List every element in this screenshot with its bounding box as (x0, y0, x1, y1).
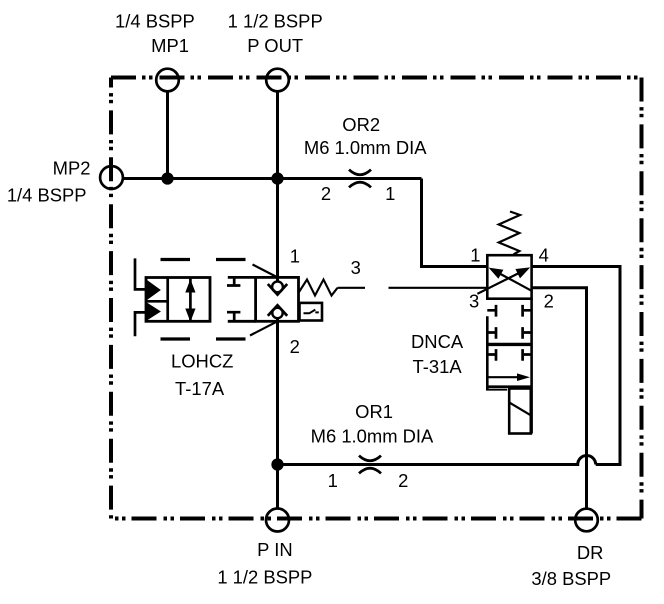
valve LOHCZ T-17A : pilot section dashed enclosure (161, 260, 246, 340)
LOHCZ pilot box (146, 278, 210, 322)
DNCA X line 2-to-1 (492, 269, 532, 290)
LOHCZ poppet lower ball (272, 308, 282, 318)
LOHCZ pilot box divider (166, 278, 169, 322)
svg-text:1: 1 (385, 183, 395, 204)
svg-text:1/4 BSPP: 1/4 BSPP (7, 185, 87, 206)
valve DNCA T-31A : spring (499, 212, 520, 255)
wire pilot to DNCA port3 (389, 287, 488, 289)
wire P OUT riser (276, 91, 279, 179)
LOHCZ diagonal pilot line upper (253, 265, 278, 278)
wire DNCA port4 right and down (532, 267, 620, 465)
svg-text:T-17A: T-17A (175, 378, 225, 399)
DNCA box3 bottom line (487, 385, 532, 388)
manifold boundary (dash-dot-dot border) (111, 76, 642, 80)
LOHCZ diagonal pilot line lower (250, 321, 278, 335)
DNCA box2/box3 separator (heavy) (486, 343, 532, 346)
svg-text:2: 2 (321, 183, 331, 204)
svg-text:2: 2 (398, 470, 408, 491)
svg-text:2: 2 (544, 291, 554, 312)
LOHCZ orifice box squiggle (304, 310, 319, 314)
svg-text:DNCA: DNCA (411, 331, 464, 352)
LOHCZ main cartridge box (256, 277, 299, 321)
svg-text:M6 1.0mm DIA: M6 1.0mm DIA (304, 137, 427, 158)
svg-text:2: 2 (290, 336, 300, 357)
LOHCZ pilot T upper (227, 278, 240, 286)
LOHCZ double arrow head up (186, 281, 195, 293)
LOHCZ spring (299, 280, 338, 296)
wire LOHCZ port3 pilot segment (338, 287, 366, 289)
svg-text:M6 1.0mm DIA: M6 1.0mm DIA (311, 425, 434, 446)
DNCA right edge full (530, 299, 533, 434)
orifice OR2 (349, 170, 371, 188)
LOHCZ pilot triangle lower (148, 304, 161, 320)
wire OR2 to DNCA port 1 (down) (422, 179, 488, 267)
LOHCZ pilot T lower (227, 312, 240, 321)
svg-text:T-31A: T-31A (413, 356, 463, 377)
LOHCZ orifice box (300, 303, 323, 321)
LOHCZ double arrow shaft (189, 278, 192, 322)
wire OR1 line with crossover hop (278, 456, 596, 465)
svg-text:OR2: OR2 (342, 114, 380, 135)
svg-text:1: 1 (470, 245, 480, 266)
LOHCZ pilot cells divider (146, 300, 168, 303)
svg-text:4: 4 (539, 245, 549, 266)
svg-text:P OUT: P OUT (247, 35, 303, 56)
wire LOHCZ port2 to P IN (276, 318, 279, 509)
orifice OR1 (359, 456, 381, 474)
DNCA blocked port T row3 right (523, 349, 532, 361)
LOHCZ pilot triangle upper (148, 281, 161, 299)
svg-text:OR1: OR1 (355, 401, 393, 422)
LOHCZ poppet upper seat (268, 284, 287, 295)
svg-text:1: 1 (290, 246, 300, 267)
DNCA box3 lower-left foot (486, 389, 507, 391)
svg-text:1 1/2 BSPP: 1 1/2 BSPP (228, 11, 323, 32)
LOHCZ pilot stub lower-left (135, 312, 146, 336)
svg-text:1/4 BSPP: 1/4 BSPP (115, 11, 195, 32)
DNCA position box 1 (487, 255, 531, 299)
port MP1 (156, 69, 179, 92)
LOHCZ bottom edge extension (228, 320, 256, 323)
LOHCZ poppet upper ball (272, 282, 283, 293)
LOHCZ poppet lower seat (268, 305, 287, 316)
DNCA left edge lower (486, 316, 489, 389)
port DR (575, 509, 598, 532)
DNCA solenoid box (509, 389, 531, 434)
port P OUT (266, 69, 289, 92)
DNCA blocked port T row2 left (487, 327, 496, 339)
wire MP1 riser (166, 91, 169, 179)
DNCA blocked port T row1 left (487, 305, 496, 317)
DNCA X arrowhead right (515, 267, 530, 278)
LOHCZ top edge extension (228, 276, 256, 279)
wire LOHCZ port1 riser (276, 179, 279, 282)
svg-text:LOHCZ: LOHCZ (171, 350, 233, 371)
LOHCZ double arrow head down (186, 309, 195, 321)
DNCA X line 3-to-4 (477, 270, 526, 294)
svg-text:3: 3 (469, 291, 479, 312)
svg-text:P IN: P IN (257, 539, 292, 560)
DNCA X arrowhead left (489, 268, 504, 279)
DNCA flow arrowhead box3 (517, 373, 530, 381)
junction node P IN/OR1 (273, 460, 283, 470)
DNCA blocked port T row3 left (487, 349, 496, 361)
wire MP2 main line (123, 177, 422, 180)
port P IN (266, 509, 289, 532)
junction node P OUT/MP2 (273, 174, 283, 184)
svg-text:MP2: MP2 (53, 158, 91, 179)
wire DNCA port2 to DR (532, 288, 587, 509)
DNCA solenoid diagonal (509, 402, 531, 415)
svg-text:MP1: MP1 (151, 35, 189, 56)
svg-text:1: 1 (328, 470, 338, 491)
junction node MP1/MP2 (163, 174, 173, 184)
DNCA flow arrow line box3 (488, 376, 518, 378)
svg-text:DR: DR (577, 542, 604, 563)
DNCA blocked port T row2 right (523, 327, 532, 339)
svg-text:3/8 BSPP: 3/8 BSPP (531, 568, 611, 589)
svg-text:3: 3 (351, 257, 361, 278)
DNCA blocked port T row1 right (523, 305, 532, 317)
port MP2 (100, 166, 123, 189)
LOHCZ pilot stub upper-left (135, 258, 146, 289)
svg-text:1 1/2 BSPP: 1 1/2 BSPP (217, 567, 312, 588)
